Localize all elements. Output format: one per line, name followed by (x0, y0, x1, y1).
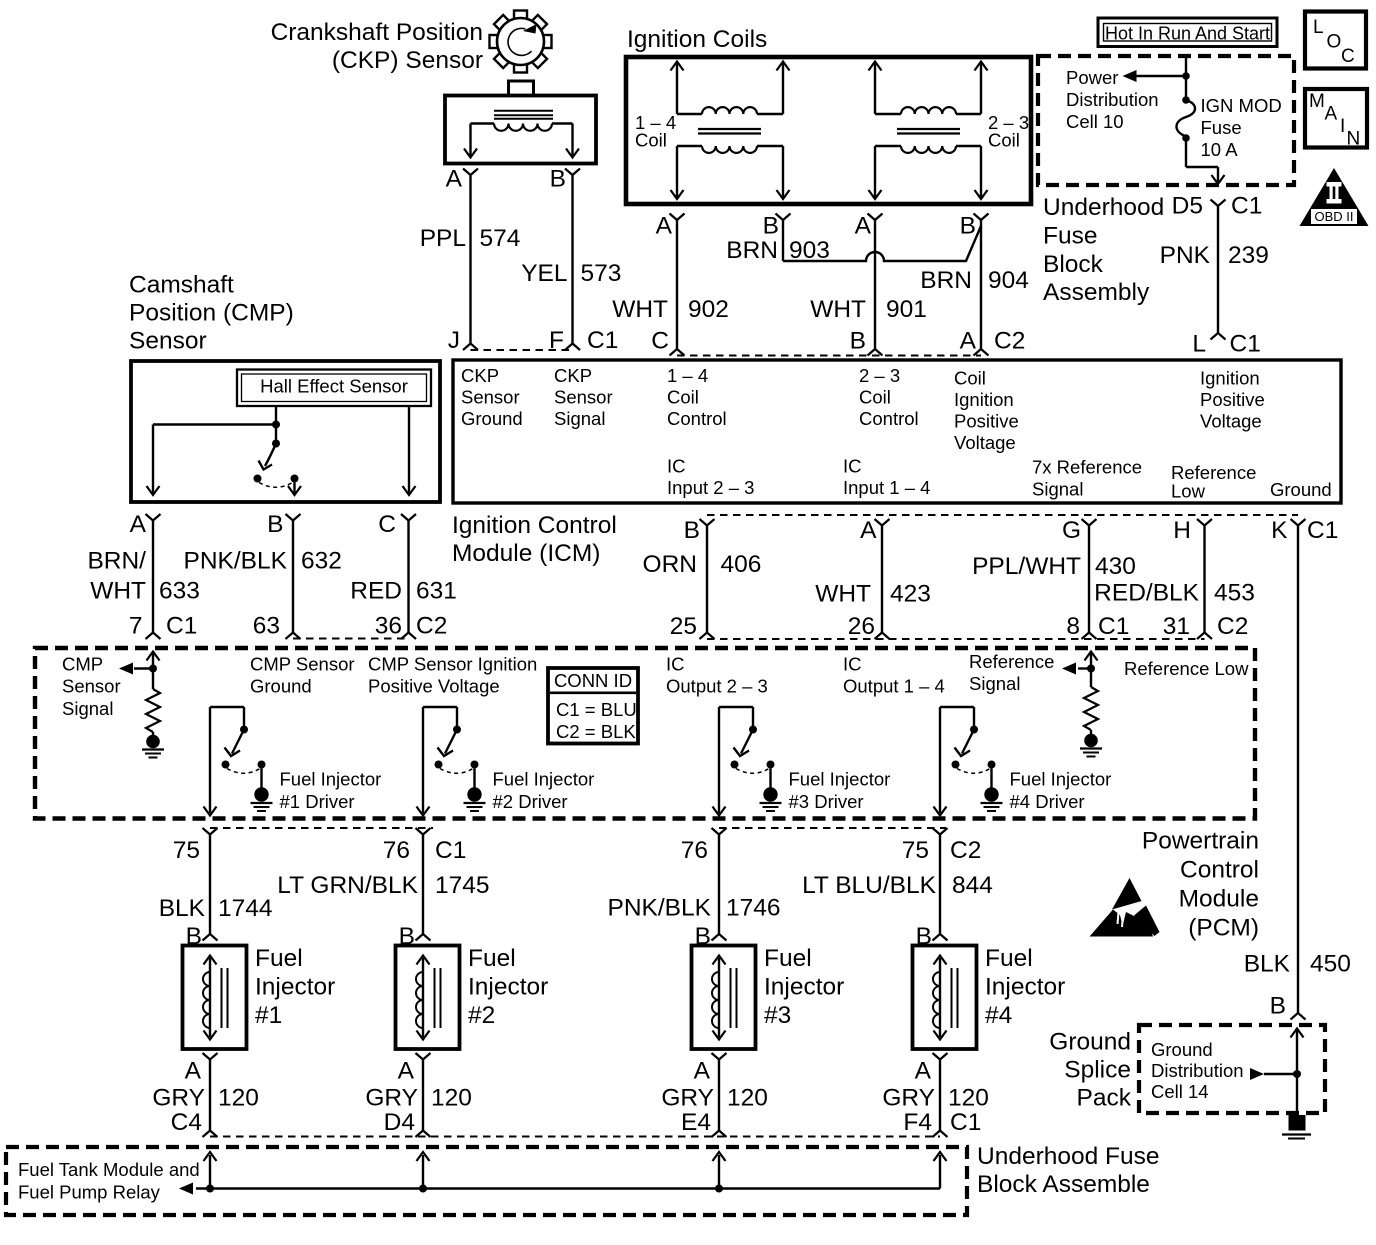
svg-text:#3 Driver: #3 Driver (789, 791, 864, 812)
svg-text:Underhood: Underhood (1043, 194, 1164, 221)
svg-text:OBD II: OBD II (1314, 209, 1353, 224)
svg-text:Ignition Control: Ignition Control (452, 512, 617, 539)
svg-text:C1: C1 (1098, 613, 1129, 640)
svg-text:Low: Low (1171, 481, 1206, 502)
svg-text:Ground: Ground (250, 676, 312, 697)
svg-text:C: C (1341, 46, 1355, 67)
svg-text:63: 63 (253, 613, 280, 640)
svg-text:GRY: GRY (661, 1085, 714, 1112)
svg-text:PPL: PPL (420, 225, 466, 252)
svg-text:Power: Power (1066, 67, 1118, 88)
svg-text:Ground: Ground (1151, 1039, 1213, 1060)
svg-text:Assembly: Assembly (1043, 279, 1150, 306)
svg-text:Reference Low: Reference Low (1124, 658, 1249, 679)
svg-text:CONN ID: CONN ID (554, 670, 632, 691)
svg-text:GRY: GRY (882, 1085, 935, 1112)
svg-text:423: 423 (890, 581, 931, 608)
svg-text:CMP: CMP (62, 654, 103, 675)
svg-text:Ignition: Ignition (1200, 368, 1260, 389)
svg-text:A: A (860, 517, 877, 544)
svg-text:573: 573 (581, 260, 622, 287)
svg-text:A: A (694, 1058, 711, 1085)
svg-text:Block: Block (1043, 251, 1104, 278)
svg-text:BRN/: BRN/ (87, 548, 146, 575)
svg-text:Hot In Run And Start: Hot In Run And Start (1105, 24, 1270, 44)
svg-text:Module (ICM): Module (ICM) (452, 540, 600, 567)
svg-text:IC: IC (843, 456, 862, 477)
svg-text:C1: C1 (950, 1109, 981, 1136)
svg-text:Signal: Signal (1032, 479, 1083, 500)
svg-text:Input 1 – 4: Input 1 – 4 (843, 477, 930, 498)
svg-text:BRN: BRN (726, 237, 778, 264)
svg-text:632: 632 (301, 548, 342, 575)
svg-text:LT GRN/BLK: LT GRN/BLK (277, 872, 418, 899)
svg-text:C: C (378, 511, 396, 538)
svg-text:C2: C2 (1217, 613, 1248, 640)
svg-text:Camshaft: Camshaft (129, 272, 234, 299)
svg-text:WHT: WHT (810, 296, 866, 323)
svg-text:Powertrain: Powertrain (1142, 828, 1259, 855)
svg-text:76: 76 (681, 837, 708, 864)
svg-text:Positive: Positive (1200, 389, 1265, 410)
svg-text:BRN: BRN (920, 267, 972, 294)
svg-text:Cell 10: Cell 10 (1066, 111, 1124, 132)
svg-text:J: J (448, 327, 460, 354)
svg-text:C1: C1 (1231, 193, 1262, 220)
svg-text:G: G (1062, 517, 1081, 544)
svg-text:633: 633 (159, 578, 200, 605)
svg-text:26: 26 (848, 613, 875, 640)
svg-text:#4: #4 (985, 1002, 1012, 1029)
svg-text:Output 2 – 3: Output 2 – 3 (666, 676, 768, 697)
svg-text:CKP: CKP (554, 365, 592, 386)
svg-text:Coil: Coil (635, 130, 667, 151)
svg-text:B: B (267, 511, 283, 538)
svg-text:453: 453 (1214, 580, 1255, 607)
svg-text:Module: Module (1179, 886, 1259, 913)
svg-text:#4 Driver: #4 Driver (1010, 791, 1085, 812)
svg-text:LT BLU/BLK: LT BLU/BLK (802, 872, 937, 899)
svg-text:GRY: GRY (152, 1085, 205, 1112)
svg-text:PPL/WHT: PPL/WHT (972, 553, 1081, 580)
svg-text:PNK: PNK (1160, 242, 1211, 269)
svg-text:#1: #1 (255, 1002, 282, 1029)
svg-text:Control: Control (1180, 857, 1259, 884)
svg-text:B: B (550, 166, 566, 193)
svg-text:Sensor: Sensor (129, 328, 207, 355)
svg-text:PNK/BLK: PNK/BLK (184, 548, 288, 575)
svg-text:430: 430 (1095, 553, 1136, 580)
svg-text:Crankshaft Position: Crankshaft Position (271, 19, 483, 46)
svg-text:PNK/BLK: PNK/BLK (608, 895, 712, 922)
svg-text:120: 120 (948, 1085, 989, 1112)
svg-text:YEL: YEL (521, 260, 567, 287)
svg-text:Reference: Reference (969, 651, 1054, 672)
svg-text:Coil: Coil (859, 387, 891, 408)
svg-text:#2: #2 (468, 1002, 495, 1029)
svg-text:Ground: Ground (461, 408, 523, 429)
svg-text:Fuel Injector: Fuel Injector (789, 769, 891, 790)
svg-text:Positive: Positive (954, 411, 1019, 432)
svg-text:1744: 1744 (218, 895, 273, 922)
svg-text:M: M (1309, 91, 1325, 112)
svg-text:239: 239 (1228, 242, 1269, 269)
svg-text:Fuel Injector: Fuel Injector (1010, 769, 1112, 790)
svg-text:25: 25 (670, 613, 697, 640)
svg-text:C4: C4 (171, 1109, 202, 1136)
svg-text:Fuel Injector: Fuel Injector (280, 769, 382, 790)
svg-text:IGN MOD: IGN MOD (1201, 95, 1282, 116)
svg-text:Fuel Injector: Fuel Injector (493, 769, 595, 790)
svg-text:A: A (656, 213, 673, 240)
svg-text:C1 = BLU: C1 = BLU (556, 699, 637, 720)
svg-text:RED/BLK: RED/BLK (1094, 580, 1200, 607)
svg-text:(CKP) Sensor: (CKP) Sensor (332, 47, 483, 74)
svg-text:B: B (684, 517, 700, 544)
svg-text:O: O (1327, 32, 1342, 53)
svg-text:C1: C1 (166, 613, 197, 640)
svg-text:L: L (1192, 331, 1206, 358)
svg-text:B: B (960, 213, 976, 240)
svg-text:BLK: BLK (1244, 951, 1291, 978)
svg-text:A: A (130, 511, 147, 538)
svg-text:H: H (1173, 517, 1191, 544)
svg-text:Sensor: Sensor (62, 676, 121, 697)
svg-text:CMP Sensor Ignition: CMP Sensor Ignition (368, 654, 537, 675)
svg-text:C1: C1 (1307, 517, 1338, 544)
svg-text:844: 844 (952, 872, 993, 899)
svg-text:Positive Voltage: Positive Voltage (368, 676, 500, 697)
svg-text:Fuse: Fuse (1201, 117, 1242, 138)
svg-text:2 – 3: 2 – 3 (859, 365, 900, 386)
svg-text:Control: Control (667, 408, 727, 429)
svg-text:#1 Driver: #1 Driver (280, 791, 355, 812)
svg-text:Fuel: Fuel (468, 945, 516, 972)
svg-text:A: A (185, 1058, 202, 1085)
svg-text:Injector: Injector (468, 974, 548, 1001)
svg-text:Voltage: Voltage (954, 432, 1016, 453)
svg-text:CMP Sensor: CMP Sensor (250, 654, 355, 675)
svg-text:Injector: Injector (255, 974, 335, 1001)
svg-text:K: K (1271, 517, 1288, 544)
svg-text:IC: IC (667, 456, 686, 477)
svg-text:1 – 4: 1 – 4 (667, 365, 708, 386)
svg-text:B: B (1270, 993, 1286, 1020)
svg-text:Pack: Pack (1077, 1085, 1132, 1112)
svg-text:901: 901 (886, 296, 927, 323)
svg-text:904: 904 (988, 267, 1029, 294)
svg-text:C1: C1 (435, 837, 466, 864)
svg-text:75: 75 (173, 837, 200, 864)
svg-text:120: 120 (727, 1085, 768, 1112)
svg-text:Sensor: Sensor (554, 387, 613, 408)
svg-text:B: B (850, 328, 866, 355)
svg-text:CKP: CKP (461, 365, 499, 386)
svg-text:Fuel: Fuel (985, 945, 1033, 972)
svg-text:Voltage: Voltage (1200, 411, 1262, 432)
svg-text:A: A (915, 1058, 932, 1085)
svg-text:1746: 1746 (726, 895, 781, 922)
svg-text:D5: D5 (1172, 193, 1203, 220)
svg-text:75: 75 (902, 837, 929, 864)
svg-text:Coil: Coil (954, 368, 986, 389)
svg-text:Input 2 – 3: Input 2 – 3 (667, 477, 754, 498)
svg-text:C: C (651, 328, 669, 355)
svg-text:76: 76 (383, 837, 410, 864)
svg-text:L: L (1313, 17, 1324, 38)
svg-text:Distribution: Distribution (1066, 89, 1159, 110)
svg-text:31: 31 (1163, 613, 1190, 640)
svg-text:Fuel Tank Module and: Fuel Tank Module and (18, 1159, 200, 1180)
svg-text:Fuse: Fuse (1043, 223, 1097, 250)
svg-text:ORN: ORN (643, 551, 697, 578)
svg-text:WHT: WHT (90, 578, 146, 605)
svg-text:BLK: BLK (159, 895, 206, 922)
svg-text:7: 7 (129, 613, 143, 640)
svg-text:Hall Effect Sensor: Hall Effect Sensor (260, 376, 408, 397)
svg-text:Signal: Signal (969, 673, 1020, 694)
svg-text:E4: E4 (681, 1109, 711, 1136)
svg-text:IC: IC (843, 654, 862, 675)
svg-text:B: B (763, 213, 779, 240)
svg-text:N: N (1347, 129, 1361, 150)
svg-text:Output 1 – 4: Output 1 – 4 (843, 676, 945, 697)
svg-text:Ignition: Ignition (954, 389, 1014, 410)
svg-text:I: I (1340, 116, 1345, 137)
svg-text:Underhood Fuse: Underhood Fuse (977, 1143, 1160, 1170)
svg-text:A: A (855, 213, 872, 240)
svg-text:Position (CMP): Position (CMP) (129, 300, 294, 327)
svg-text:IC: IC (666, 654, 685, 675)
svg-text:A: A (398, 1058, 415, 1085)
svg-text:Ground: Ground (1049, 1029, 1131, 1056)
svg-text:Fuel Pump Relay: Fuel Pump Relay (18, 1182, 161, 1203)
svg-text:A: A (446, 166, 463, 193)
svg-text:Cell 14: Cell 14 (1151, 1081, 1209, 1102)
svg-text:Control: Control (859, 408, 919, 429)
svg-text:Fuel: Fuel (255, 945, 303, 972)
svg-text:#2 Driver: #2 Driver (493, 791, 568, 812)
svg-text:WHT: WHT (815, 581, 871, 608)
svg-text:C2: C2 (416, 613, 447, 640)
svg-text:Ground: Ground (1270, 479, 1332, 500)
svg-text:1745: 1745 (435, 872, 490, 899)
svg-text:C2: C2 (994, 328, 1025, 355)
svg-text:Coil: Coil (988, 130, 1020, 151)
svg-text:C1: C1 (1230, 331, 1261, 358)
svg-text:RED: RED (350, 578, 402, 605)
svg-text:C2 = BLK: C2 = BLK (556, 721, 636, 742)
svg-text:903: 903 (789, 237, 830, 264)
svg-text:C2: C2 (950, 837, 981, 864)
svg-text:Fuel: Fuel (764, 945, 812, 972)
svg-text:574: 574 (480, 225, 521, 252)
svg-text:A: A (1325, 104, 1338, 125)
svg-text:Signal: Signal (554, 408, 605, 429)
svg-text:C1: C1 (587, 327, 618, 354)
svg-text:D4: D4 (384, 1109, 415, 1136)
svg-text:Injector: Injector (985, 974, 1065, 1001)
svg-text:F4: F4 (903, 1109, 932, 1136)
svg-text:Injector: Injector (764, 974, 844, 1001)
svg-text:Ignition Coils: Ignition Coils (627, 26, 767, 53)
svg-text:Sensor: Sensor (461, 387, 520, 408)
svg-text:120: 120 (218, 1085, 259, 1112)
svg-text:Block Assemble: Block Assemble (977, 1171, 1150, 1198)
svg-text:631: 631 (416, 578, 457, 605)
svg-text:902: 902 (688, 296, 729, 323)
svg-text:WHT: WHT (612, 296, 668, 323)
svg-text:Coil: Coil (667, 387, 699, 408)
svg-text:Splice: Splice (1064, 1057, 1131, 1084)
svg-text:#3: #3 (764, 1002, 791, 1029)
svg-text:450: 450 (1310, 951, 1351, 978)
svg-text:8: 8 (1066, 613, 1080, 640)
svg-text:406: 406 (721, 551, 762, 578)
svg-text:GRY: GRY (365, 1085, 418, 1112)
svg-text:Distribution: Distribution (1151, 1060, 1244, 1081)
svg-text:A: A (960, 328, 977, 355)
svg-text:(PCM): (PCM) (1188, 915, 1259, 942)
svg-text:120: 120 (431, 1085, 472, 1112)
svg-text:7x Reference: 7x Reference (1032, 457, 1142, 478)
svg-text:10 A: 10 A (1201, 139, 1239, 160)
svg-text:36: 36 (375, 613, 402, 640)
svg-text:Signal: Signal (62, 698, 113, 719)
